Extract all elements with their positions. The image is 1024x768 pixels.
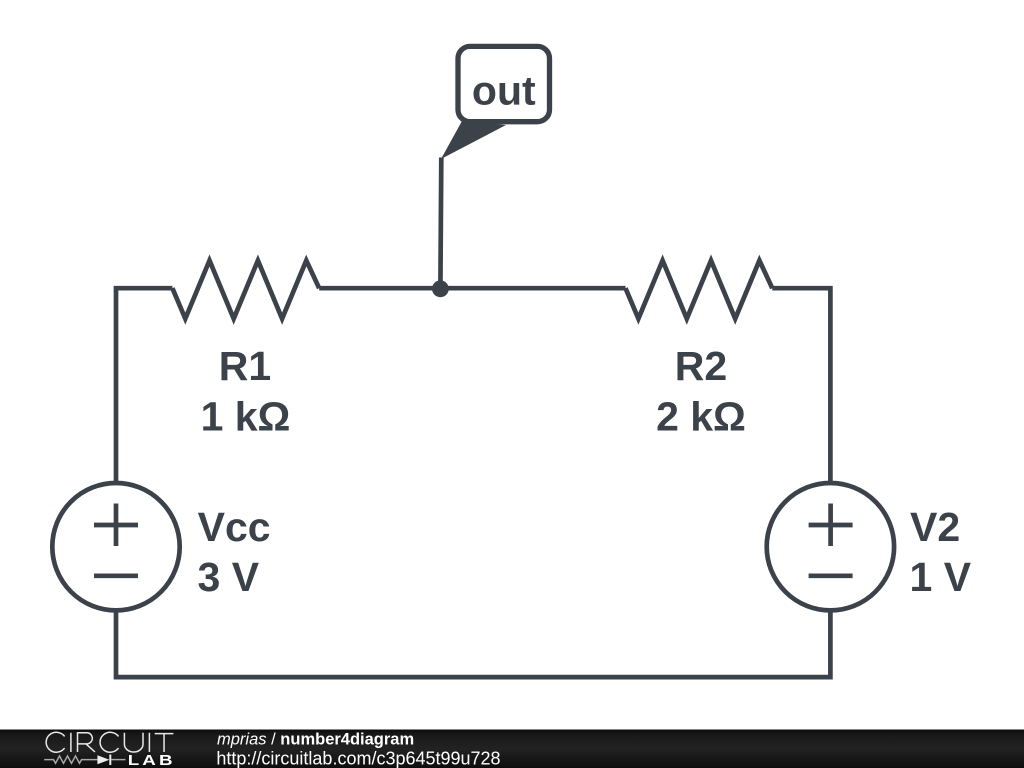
node out: callout box xyxy=(458,46,550,121)
CircuitLab logo: resistor-diode squiggle xyxy=(44,756,125,763)
Vcc minus sign xyxy=(94,573,138,578)
CircuitLab logo: CIRCUIT letters xyxy=(46,732,173,752)
wire: left rail + top-left segment xyxy=(116,288,172,483)
svg-text:R1: R1 xyxy=(219,343,271,389)
svg-text:R2: R2 xyxy=(675,343,727,389)
V2 minus sign xyxy=(809,573,853,578)
CircuitLab logo: diode xyxy=(97,755,109,764)
V2 plus sign xyxy=(809,504,853,547)
svg-text:mprias / number4diagram: mprias / number4diagram xyxy=(217,731,414,749)
svg-text:1 V: 1 V xyxy=(910,554,972,600)
resistor R2 xyxy=(626,261,773,319)
wire: top-right segment + right rail xyxy=(772,288,830,483)
svg-text:3 V: 3 V xyxy=(198,554,260,600)
wire: bottom rail with stubs xyxy=(116,610,830,677)
wire: out callout wire xyxy=(438,158,444,289)
wire: R1 to R2 through node xyxy=(319,286,625,291)
svg-text:Vcc: Vcc xyxy=(198,504,271,550)
voltage source Vcc (circle) xyxy=(52,483,179,610)
voltage source V2 (circle) xyxy=(767,483,894,610)
node out junction dot xyxy=(432,280,449,297)
svg-text:out: out xyxy=(472,68,536,114)
svg-text:2 kΩ: 2 kΩ xyxy=(656,394,746,440)
Vcc plus sign xyxy=(94,504,138,547)
resistor R1 xyxy=(172,261,319,319)
svg-text:LAB: LAB xyxy=(128,752,176,768)
svg-text:http://circuitlab.com/c3p645t9: http://circuitlab.com/c3p645t99u728 xyxy=(216,748,500,768)
node out: callout tail xyxy=(441,121,506,159)
svg-text:V2: V2 xyxy=(910,504,960,550)
svg-text:1 kΩ: 1 kΩ xyxy=(201,394,291,440)
